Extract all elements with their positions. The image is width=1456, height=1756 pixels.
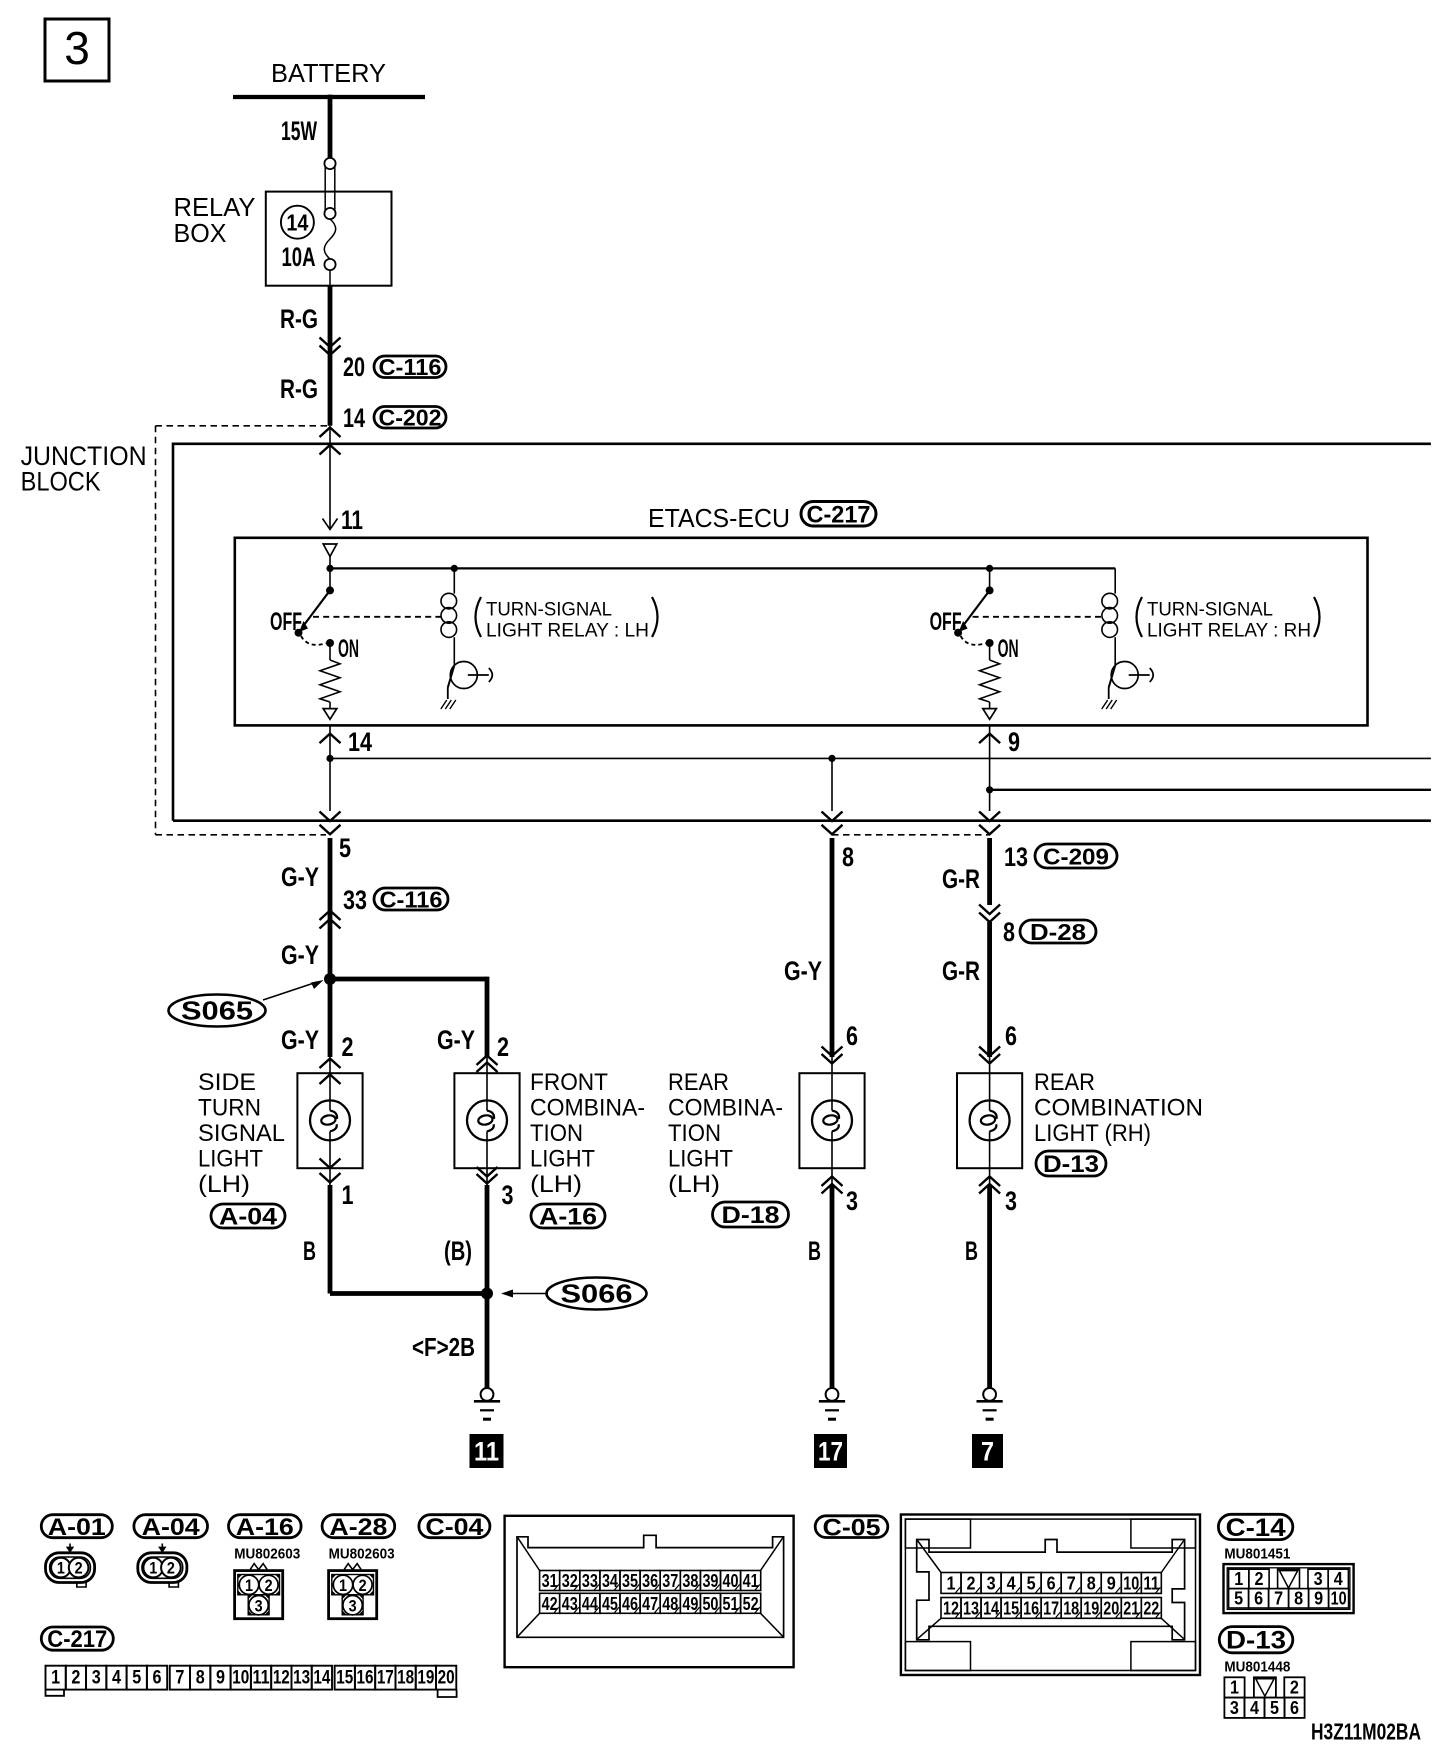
svg-text:D-18: D-18 [722,1202,780,1229]
svg-text:A-04: A-04 [142,1514,201,1541]
svg-text:20: 20 [343,352,365,382]
svg-text:C-116: C-116 [380,886,443,912]
svg-text:10: 10 [232,1668,249,1689]
svg-text:ON: ON [998,635,1019,663]
svg-text:7: 7 [981,1437,994,1467]
svg-text:BOX: BOX [174,218,227,248]
svg-text:3: 3 [1005,1186,1017,1216]
svg-text:2: 2 [1255,1569,1264,1589]
svg-text:2: 2 [967,1574,976,1594]
svg-text:TION: TION [530,1120,583,1147]
svg-text:4: 4 [112,1668,121,1689]
svg-text:REAR: REAR [1034,1069,1095,1096]
svg-text:LIGHT RELAY : RH: LIGHT RELAY : RH [1147,621,1311,642]
svg-text:1: 1 [245,1576,253,1595]
svg-text:SIDE: SIDE [198,1069,256,1096]
svg-text:H3Z11M02BA: H3Z11M02BA [1311,1719,1421,1745]
svg-text:6: 6 [1290,1698,1299,1718]
svg-text:C-116: C-116 [379,354,442,380]
svg-text:6: 6 [1254,1588,1263,1608]
svg-text:MU802603: MU802603 [234,1546,300,1563]
svg-text:7: 7 [1067,1574,1076,1594]
svg-text:(LH): (LH) [198,1171,250,1198]
svg-text:TURN: TURN [198,1095,261,1122]
svg-text:2: 2 [167,1559,175,1578]
svg-text:TURN-SIGNAL: TURN-SIGNAL [1147,600,1273,621]
svg-text:B: B [965,1236,978,1266]
svg-text:11: 11 [341,505,363,535]
svg-text:18: 18 [397,1668,414,1689]
svg-text:11: 11 [1143,1574,1159,1594]
svg-text:B: B [808,1236,821,1266]
svg-text:5: 5 [1234,1588,1243,1608]
svg-text:10A: 10A [282,242,316,272]
svg-text:LIGHT: LIGHT [668,1146,733,1173]
svg-text:3: 3 [1230,1698,1239,1718]
svg-text:2: 2 [497,1032,509,1062]
svg-text:6: 6 [1005,1021,1017,1051]
svg-text:3: 3 [92,1668,101,1689]
svg-text:1: 1 [342,1180,354,1210]
svg-text:12: 12 [273,1668,290,1689]
svg-text:11: 11 [474,1437,499,1467]
svg-text:2: 2 [1290,1678,1299,1698]
svg-text:17: 17 [377,1668,394,1689]
svg-text:3: 3 [255,1596,263,1615]
svg-text:COMBINA-: COMBINA- [530,1095,645,1122]
svg-text:SIGNAL: SIGNAL [198,1120,285,1147]
svg-text:TION: TION [668,1120,721,1147]
svg-text:4: 4 [1007,1574,1016,1594]
svg-text:G-Y: G-Y [281,862,319,892]
svg-text:B: B [303,1236,316,1266]
svg-text:A-28: A-28 [329,1514,387,1541]
svg-text:COMBINA-: COMBINA- [668,1095,783,1122]
svg-text:S066: S066 [561,1279,633,1309]
svg-text:MU801448: MU801448 [1224,1659,1290,1676]
svg-text:3: 3 [502,1180,514,1210]
svg-text:C-04: C-04 [425,1514,484,1541]
svg-text:14: 14 [313,1668,330,1689]
svg-text:2: 2 [265,1576,273,1595]
svg-text:(LH): (LH) [668,1171,720,1198]
svg-text:3: 3 [987,1574,996,1594]
svg-text:1: 1 [1234,1569,1243,1589]
svg-text:<F>2B: <F>2B [412,1332,475,1362]
svg-text:13: 13 [293,1668,310,1689]
svg-text:8: 8 [1294,1588,1303,1608]
svg-text:8: 8 [1087,1574,1096,1594]
svg-text:1: 1 [57,1559,65,1578]
svg-text:17: 17 [818,1437,843,1467]
svg-text:6: 6 [846,1021,858,1051]
svg-text:G-Y: G-Y [437,1025,475,1055]
svg-text:2: 2 [359,1576,367,1595]
svg-text:3: 3 [64,22,90,74]
svg-text:ON: ON [338,635,359,663]
svg-text:MU802603: MU802603 [329,1546,395,1563]
svg-text:6: 6 [1047,1574,1056,1594]
svg-text:(B): (B) [444,1236,472,1266]
svg-text:LIGHT (RH): LIGHT (RH) [1034,1120,1151,1147]
svg-text:2: 2 [75,1559,83,1578]
svg-text:A-16: A-16 [236,1514,294,1541]
svg-text:G-Y: G-Y [281,940,319,970]
svg-text:C-217: C-217 [807,501,871,528]
svg-text:REAR: REAR [668,1069,729,1096]
svg-text:20: 20 [438,1668,455,1689]
svg-text:1: 1 [149,1559,157,1578]
svg-text:C-209: C-209 [1043,843,1109,869]
svg-text:S065: S065 [181,996,253,1026]
svg-text:3: 3 [846,1186,858,1216]
svg-text:15W: 15W [281,116,317,146]
svg-text:C-217: C-217 [47,1626,107,1653]
svg-text:14: 14 [348,727,372,757]
svg-text:8: 8 [842,842,854,872]
svg-text:BLOCK: BLOCK [21,467,101,497]
svg-text:D-13: D-13 [1043,1151,1099,1178]
svg-text:7: 7 [1274,1588,1283,1608]
svg-text:G-R: G-R [942,864,980,894]
svg-text:G-R: G-R [942,956,980,986]
svg-text:C-05: C-05 [823,1514,881,1541]
svg-text:1: 1 [947,1574,956,1594]
svg-text:8: 8 [1003,917,1015,947]
svg-text:LIGHT: LIGHT [530,1146,595,1173]
svg-text:14: 14 [286,210,308,236]
svg-text:COMBINATION: COMBINATION [1034,1095,1203,1122]
svg-text:5: 5 [339,833,351,863]
svg-text:5: 5 [1027,1574,1036,1594]
svg-text:13: 13 [1004,842,1028,872]
svg-text:10: 10 [1331,1588,1347,1608]
svg-text:G-Y: G-Y [281,1025,319,1055]
svg-text:LIGHT: LIGHT [198,1146,263,1173]
svg-text:A-01: A-01 [48,1514,106,1541]
svg-text:4: 4 [1250,1698,1259,1718]
svg-text:2: 2 [71,1668,80,1689]
svg-text:16: 16 [357,1668,374,1689]
svg-text:10: 10 [1123,1574,1139,1594]
svg-text:9: 9 [1314,1588,1323,1608]
svg-text:ETACS-ECU: ETACS-ECU [648,503,790,533]
svg-text:5: 5 [1270,1698,1279,1718]
svg-text:OFF: OFF [930,608,962,636]
svg-text:MU801451: MU801451 [1224,1546,1290,1563]
svg-text:1: 1 [339,1576,347,1595]
svg-text:7: 7 [175,1668,184,1689]
svg-text:8: 8 [196,1668,205,1689]
svg-text:R-G: R-G [280,304,318,334]
svg-text:14: 14 [343,403,365,433]
svg-text:9: 9 [1107,1574,1116,1594]
svg-text:3: 3 [1314,1569,1323,1589]
svg-text:5: 5 [132,1668,141,1689]
svg-text:A-04: A-04 [219,1204,278,1231]
svg-text:33: 33 [343,885,367,915]
svg-text:TURN-SIGNAL: TURN-SIGNAL [486,600,612,621]
svg-text:1: 1 [1230,1678,1239,1698]
svg-text:G-Y: G-Y [784,956,822,986]
svg-text:(LH): (LH) [530,1171,582,1198]
svg-text:D-13: D-13 [1226,1627,1286,1655]
svg-text:1: 1 [51,1668,60,1689]
svg-text:3: 3 [349,1596,357,1615]
svg-text:FRONT: FRONT [530,1069,608,1096]
svg-text:D-28: D-28 [1030,919,1086,945]
svg-text:6: 6 [153,1668,162,1689]
svg-text:C-202: C-202 [379,405,442,431]
svg-text:9: 9 [1008,727,1020,757]
svg-text:9: 9 [216,1668,225,1689]
svg-text:R-G: R-G [280,374,318,404]
svg-text:BATTERY: BATTERY [271,58,386,88]
svg-text:A-16: A-16 [539,1204,597,1231]
svg-text:OFF: OFF [270,608,302,636]
svg-text:15: 15 [336,1668,353,1689]
svg-text:19: 19 [417,1668,434,1689]
svg-text:2: 2 [342,1032,354,1062]
svg-text:C-14: C-14 [1226,1514,1286,1542]
svg-text:11: 11 [253,1668,270,1689]
svg-text:4: 4 [1334,1569,1343,1589]
svg-text:LIGHT RELAY : LH: LIGHT RELAY : LH [486,621,649,642]
